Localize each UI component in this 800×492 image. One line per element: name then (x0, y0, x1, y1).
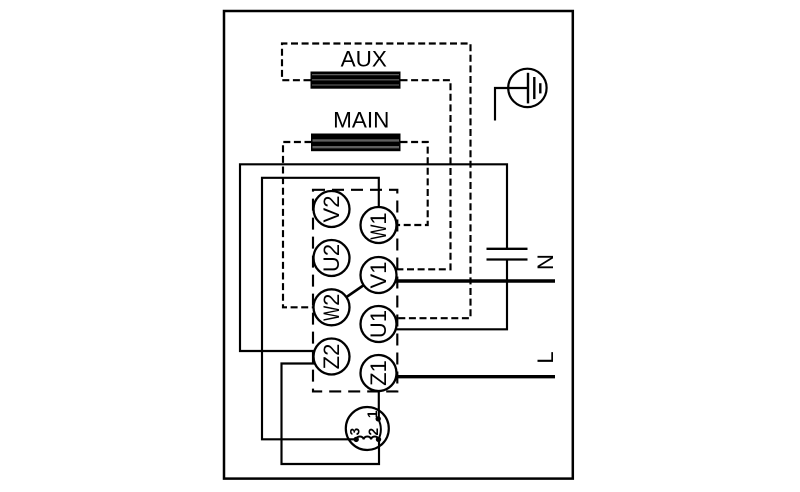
thermal switch outline (346, 407, 389, 450)
terminal U1 (361, 306, 397, 342)
svg-text:AUX: AUX (341, 47, 387, 72)
ground symbol (495, 69, 547, 121)
wire: switch contact 2 to terminal Z2 (282, 364, 380, 465)
main winding MAIN (311, 134, 401, 152)
svg-text:1: 1 (365, 410, 380, 418)
svg-text:N: N (533, 254, 558, 270)
svg-text:L: L (533, 351, 558, 363)
wire: terminal Z1 down to switch contact 1 (378, 373, 380, 419)
svg-text:Z2: Z2 (319, 344, 344, 370)
svg-text:2: 2 (366, 428, 381, 436)
wire: AUX winding left lead to terminal U1 (dashed loop) (282, 44, 471, 319)
terminal V2 (314, 191, 350, 227)
svg-text:U2: U2 (319, 244, 344, 272)
terminal U2 (314, 240, 350, 276)
switch contact 1 dot (376, 416, 381, 421)
svg-text:MAIN: MAIN (333, 108, 389, 133)
auxiliary winding AUX (311, 72, 401, 89)
svg-text:W1: W1 (366, 212, 391, 239)
svg-text:W2: W2 (319, 294, 344, 321)
terminal V1 (361, 257, 397, 293)
wire: terminal W1 to switch contact 3 (262, 178, 379, 440)
wire: neutral N from terminal V1 (379, 279, 556, 282)
wire: MAIN winding right lead to terminal W1 (dashed) (379, 142, 428, 225)
capacitor C (487, 249, 528, 260)
switch heater element (wavy) (356, 436, 378, 439)
enclosure border (224, 11, 573, 479)
wire: terminal Z2 to capacitor top plate (240, 164, 507, 351)
terminal W1 (361, 207, 397, 243)
terminal Z1 (361, 355, 397, 391)
switch contact 2 dot (376, 437, 381, 442)
wire: line L from terminal Z1 (379, 375, 556, 378)
switch contact 3 dot (354, 437, 359, 442)
svg-text:3: 3 (348, 427, 363, 435)
svg-text:Z1: Z1 (366, 360, 391, 386)
terminal W2 (314, 289, 350, 325)
svg-text:V2: V2 (319, 196, 344, 223)
wire: MAIN winding left lead to terminal W2 (dashed) (283, 142, 332, 307)
svg-text:U1: U1 (366, 310, 391, 338)
wire: capacitor bottom plate to terminal U1 (379, 260, 508, 330)
terminal Z2 (314, 339, 350, 375)
wire: link terminal W2 to terminal V1 (332, 275, 379, 307)
svg-text:V1: V1 (366, 262, 391, 289)
terminal box outline (dashed) (313, 190, 397, 392)
switch moving contact arc (378, 419, 381, 440)
wire: AUX winding right lead to terminal V1 (dashed) (379, 80, 451, 269)
